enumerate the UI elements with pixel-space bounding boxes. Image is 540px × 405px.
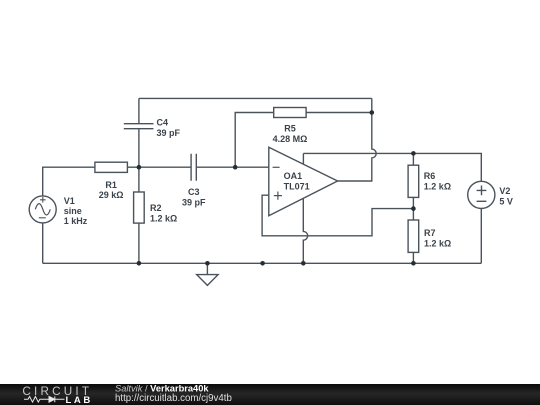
wire: V1 bottom to ground rail <box>42 223 44 263</box>
capacitor C4 <box>124 124 154 129</box>
wire: op-amp V+ supply pin <box>302 153 304 164</box>
svg-text:Saltvik / Verkarbra40k: Saltvik / Verkarbra40k <box>115 384 209 394</box>
R2 ground junction dot <box>137 261 142 266</box>
svg-text:LAB: LAB <box>66 395 93 405</box>
svg-text:C4: C4 <box>157 118 169 128</box>
wire: C3 right plate to node B and op-amp inverting input <box>196 166 268 168</box>
svg-text:V1: V1 <box>64 196 75 206</box>
svg-text:TL071: TL071 <box>284 182 310 192</box>
op-amp non-inverting input marker <box>274 192 282 200</box>
resistor R5 <box>274 108 306 118</box>
svg-text:29 kΩ: 29 kΩ <box>99 190 124 200</box>
wire: R6 bottom to node D <box>412 197 414 208</box>
wire: node B up to R5 left <box>235 113 274 168</box>
ground symbol <box>206 263 208 274</box>
svg-text:R2: R2 <box>150 203 162 213</box>
svg-text:39 pF: 39 pF <box>157 128 181 138</box>
wire: feedback node down to op-amp output, hop over V+ rail <box>338 113 377 182</box>
svg-text:R7: R7 <box>424 228 436 238</box>
voltage source V1 plus marker <box>40 197 46 203</box>
wire: node A up to C4 bottom plate <box>138 129 140 167</box>
capacitor C3 <box>191 154 196 181</box>
voltage source V1 sine wave <box>35 204 50 215</box>
voltage source V2 plus marker <box>477 186 487 196</box>
node D junction dot <box>411 206 416 211</box>
voltage source V2 circle <box>468 181 495 208</box>
voltage source V1 minus marker <box>39 217 46 219</box>
wire: V1 top to R1 left <box>43 167 95 196</box>
svg-text:V2: V2 <box>499 186 510 196</box>
node A junction dot <box>137 165 142 170</box>
svg-text:R1: R1 <box>105 180 117 190</box>
wire: V2 bottom to ground rail <box>480 209 482 264</box>
svg-text:1.2 kΩ: 1.2 kΩ <box>424 182 451 192</box>
V- pin ground junction dot <box>301 261 306 266</box>
svg-text:4.28 MΩ: 4.28 MΩ <box>273 134 308 144</box>
svg-text:5 V: 5 V <box>499 197 513 207</box>
resistor R2 <box>134 192 145 223</box>
wire: top rail down to feedback node <box>371 98 373 112</box>
wire: node C down to R6 top <box>412 153 414 165</box>
wire: node A to C3 left plate <box>139 166 191 168</box>
svg-text:R6: R6 <box>424 171 436 181</box>
svg-text:1.2 kΩ: 1.2 kΩ <box>150 214 177 224</box>
op-amp inverting input marker <box>273 166 280 168</box>
wire: R5 right to feedback node <box>306 112 372 114</box>
wire: ground rail <box>43 262 482 264</box>
svg-text:OA1: OA1 <box>284 171 303 181</box>
footer bar <box>0 384 540 405</box>
wire: C4 top plate up to top rail corner <box>138 98 140 123</box>
wire: node A down to R2 top <box>138 167 140 192</box>
svg-text:1.2 kΩ: 1.2 kΩ <box>424 238 451 248</box>
wire: op-amp V- supply pin down to ground rail, hop over + input wire <box>303 198 307 263</box>
node C junction dot <box>411 151 416 156</box>
resistor R7 <box>408 220 419 252</box>
svg-text:R5: R5 <box>284 123 296 133</box>
resistor R6 <box>408 165 419 197</box>
ground symbol junction dot <box>205 261 210 266</box>
wire: top rail <box>139 97 372 99</box>
svg-text:39 pF: 39 pF <box>182 197 206 207</box>
wire: V+ rail to V2 top <box>303 153 481 181</box>
wire: op-amp non-inverting input around to node D <box>262 195 413 236</box>
feedback node junction dot <box>370 110 375 115</box>
op-amp U1 OA1 body <box>269 147 338 216</box>
voltage source V2 minus marker <box>477 200 487 202</box>
R7 ground junction dot <box>411 261 416 266</box>
ground rail junction dot <box>260 261 265 266</box>
wire: R2 bottom to ground rail <box>138 223 140 263</box>
voltage source V1 circle <box>29 196 56 223</box>
svg-text:http://circuitlab.com/cj9v4tb: http://circuitlab.com/cj9v4tb <box>115 393 232 404</box>
svg-text:1 kHz: 1 kHz <box>64 216 88 226</box>
svg-text:sine: sine <box>64 206 82 216</box>
wire: R7 bottom to ground rail <box>412 252 414 263</box>
CircuitLab logo squiggle resistor-diode <box>24 396 65 402</box>
svg-text:C3: C3 <box>188 187 200 197</box>
wire: node D to R7 top <box>412 209 414 220</box>
node B junction dot <box>233 165 238 170</box>
resistor R1 <box>95 162 128 172</box>
wire: R1 right to node A <box>127 166 138 168</box>
